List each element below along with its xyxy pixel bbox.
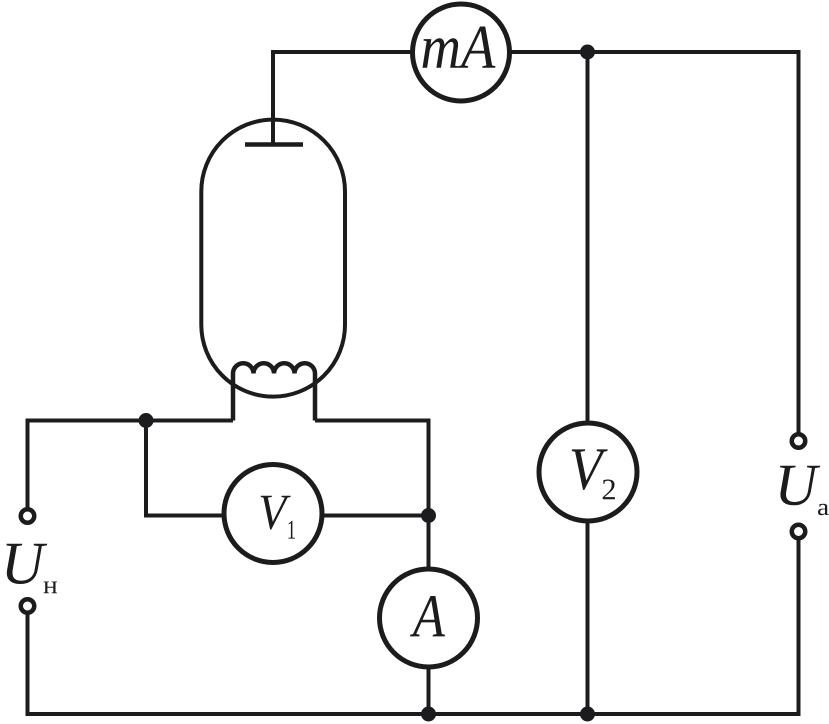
wire V1 right horizontal	[321, 514, 429, 518]
wire right vertical upper to Ua terminal	[797, 50, 801, 433]
wire top horizontal to mA	[271, 50, 413, 54]
wire right column down to ammeter	[427, 419, 431, 571]
node junction bottom V2	[580, 707, 595, 722]
wire heater row right	[315, 419, 431, 423]
node junction heater left	[139, 413, 154, 428]
tube VL1 envelope	[201, 120, 345, 397]
anode plate	[245, 142, 303, 147]
milliammeter mA circle	[413, 4, 510, 101]
label Ua subscript a	[818, 504, 829, 515]
terminal Un lower	[21, 599, 35, 613]
voltmeter V2 circle	[539, 423, 637, 521]
label Ua	[780, 466, 820, 506]
node junction bottom ammeter	[421, 707, 436, 722]
ammeter A circle	[380, 569, 478, 667]
node junction at mA output	[580, 45, 595, 60]
wire junction drop at x=146	[144, 421, 148, 516]
label V2 subscript 2	[603, 480, 615, 500]
wire right vertical lower from Ua terminal	[797, 540, 801, 715]
wire bottom horizontal	[28, 712, 801, 716]
wire left vertical upper	[26, 419, 30, 508]
voltmeter V1 circle	[224, 465, 322, 563]
wire heater row left	[26, 419, 234, 423]
cathode heater coil	[233, 363, 315, 420]
label V1 subscript 1	[288, 521, 295, 539]
terminal Ua lower	[792, 525, 806, 539]
node junction V1 right	[421, 508, 436, 523]
wire left vertical lower	[26, 615, 30, 717]
wire mA to top-right corner	[509, 50, 799, 54]
wire ammeter bottom	[427, 666, 431, 714]
label Un subscript n	[44, 582, 58, 594]
wire middle vertical V2 to bottom	[586, 519, 590, 714]
terminal Un upper	[21, 509, 35, 523]
label A	[410, 596, 445, 636]
label V2	[572, 449, 608, 490]
label Un	[6, 544, 47, 584]
wire anode lead vertical	[271, 52, 275, 145]
label mA	[423, 27, 496, 68]
wire middle vertical junction to V2	[586, 52, 590, 425]
wire V1 left horizontal	[144, 514, 226, 518]
label V1	[261, 496, 291, 530]
terminal Ua upper	[792, 434, 806, 448]
